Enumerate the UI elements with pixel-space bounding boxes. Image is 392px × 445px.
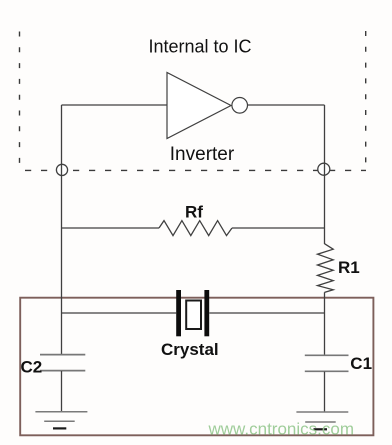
wire: C1 to ground	[324, 372, 326, 412]
capacitor C2 bottom plate	[40, 370, 85, 372]
svg-text:Crystal: Crystal	[161, 340, 219, 359]
capacitor C1 top plate	[305, 354, 349, 356]
dashed box right edge	[365, 31, 367, 170]
ground left: bar 2	[44, 420, 74, 422]
svg-text:www.cntronics.com: www.cntronics.com	[208, 420, 354, 439]
dashed box left edge (Internal-to-IC boundary)	[19, 32, 21, 171]
wire: crystal right lead	[209, 312, 324, 314]
ground right: bar 1	[296, 411, 348, 413]
svg-text:Rf: Rf	[185, 203, 203, 222]
wire: left rail vertical	[61, 105, 63, 355]
wire: left rail through left pin	[61, 164, 63, 176]
crystal left electrode plate	[176, 290, 181, 336]
capacitor C2 top plate	[40, 354, 85, 356]
ground right: bar 3	[314, 428, 328, 430]
ground left: bar 1	[35, 411, 87, 413]
dashed box bottom edge	[25, 169, 366, 171]
wire: right rail upper vertical	[324, 105, 326, 244]
wire: inverter output to right rail	[248, 104, 325, 106]
resistor Rf zigzag	[159, 221, 232, 236]
wire: C2 to ground	[61, 371, 63, 412]
svg-text:Inverter: Inverter	[170, 144, 235, 165]
ground left: bar 3	[53, 427, 66, 429]
inverter output bubble	[232, 98, 248, 114]
resistor R1 zigzag	[318, 244, 334, 293]
crystal body rectangle	[186, 301, 201, 330]
svg-text:C1: C1	[350, 354, 372, 373]
op-amp U1 inverter triangle	[167, 73, 231, 139]
svg-text:C2: C2	[21, 357, 43, 376]
svg-text:R1: R1	[338, 258, 360, 277]
red board outline box	[20, 298, 373, 436]
svg-text:Internal to IC: Internal to IC	[148, 37, 251, 57]
wire: right rail below R1 to C1	[324, 292, 326, 355]
wire: Rf right segment	[232, 227, 325, 229]
node right pin on IC boundary	[318, 163, 330, 175]
capacitor C1 bottom plate	[305, 370, 349, 372]
wire: right rail through right pin	[324, 163, 326, 176]
ground right: bar 2	[305, 421, 336, 423]
wire: Rf left segment	[62, 227, 160, 229]
node left pin on IC boundary	[56, 164, 67, 175]
wire: inverter input from left rail	[62, 104, 168, 106]
wire: crystal left lead	[62, 312, 177, 314]
crystal right electrode plate	[204, 290, 209, 336]
